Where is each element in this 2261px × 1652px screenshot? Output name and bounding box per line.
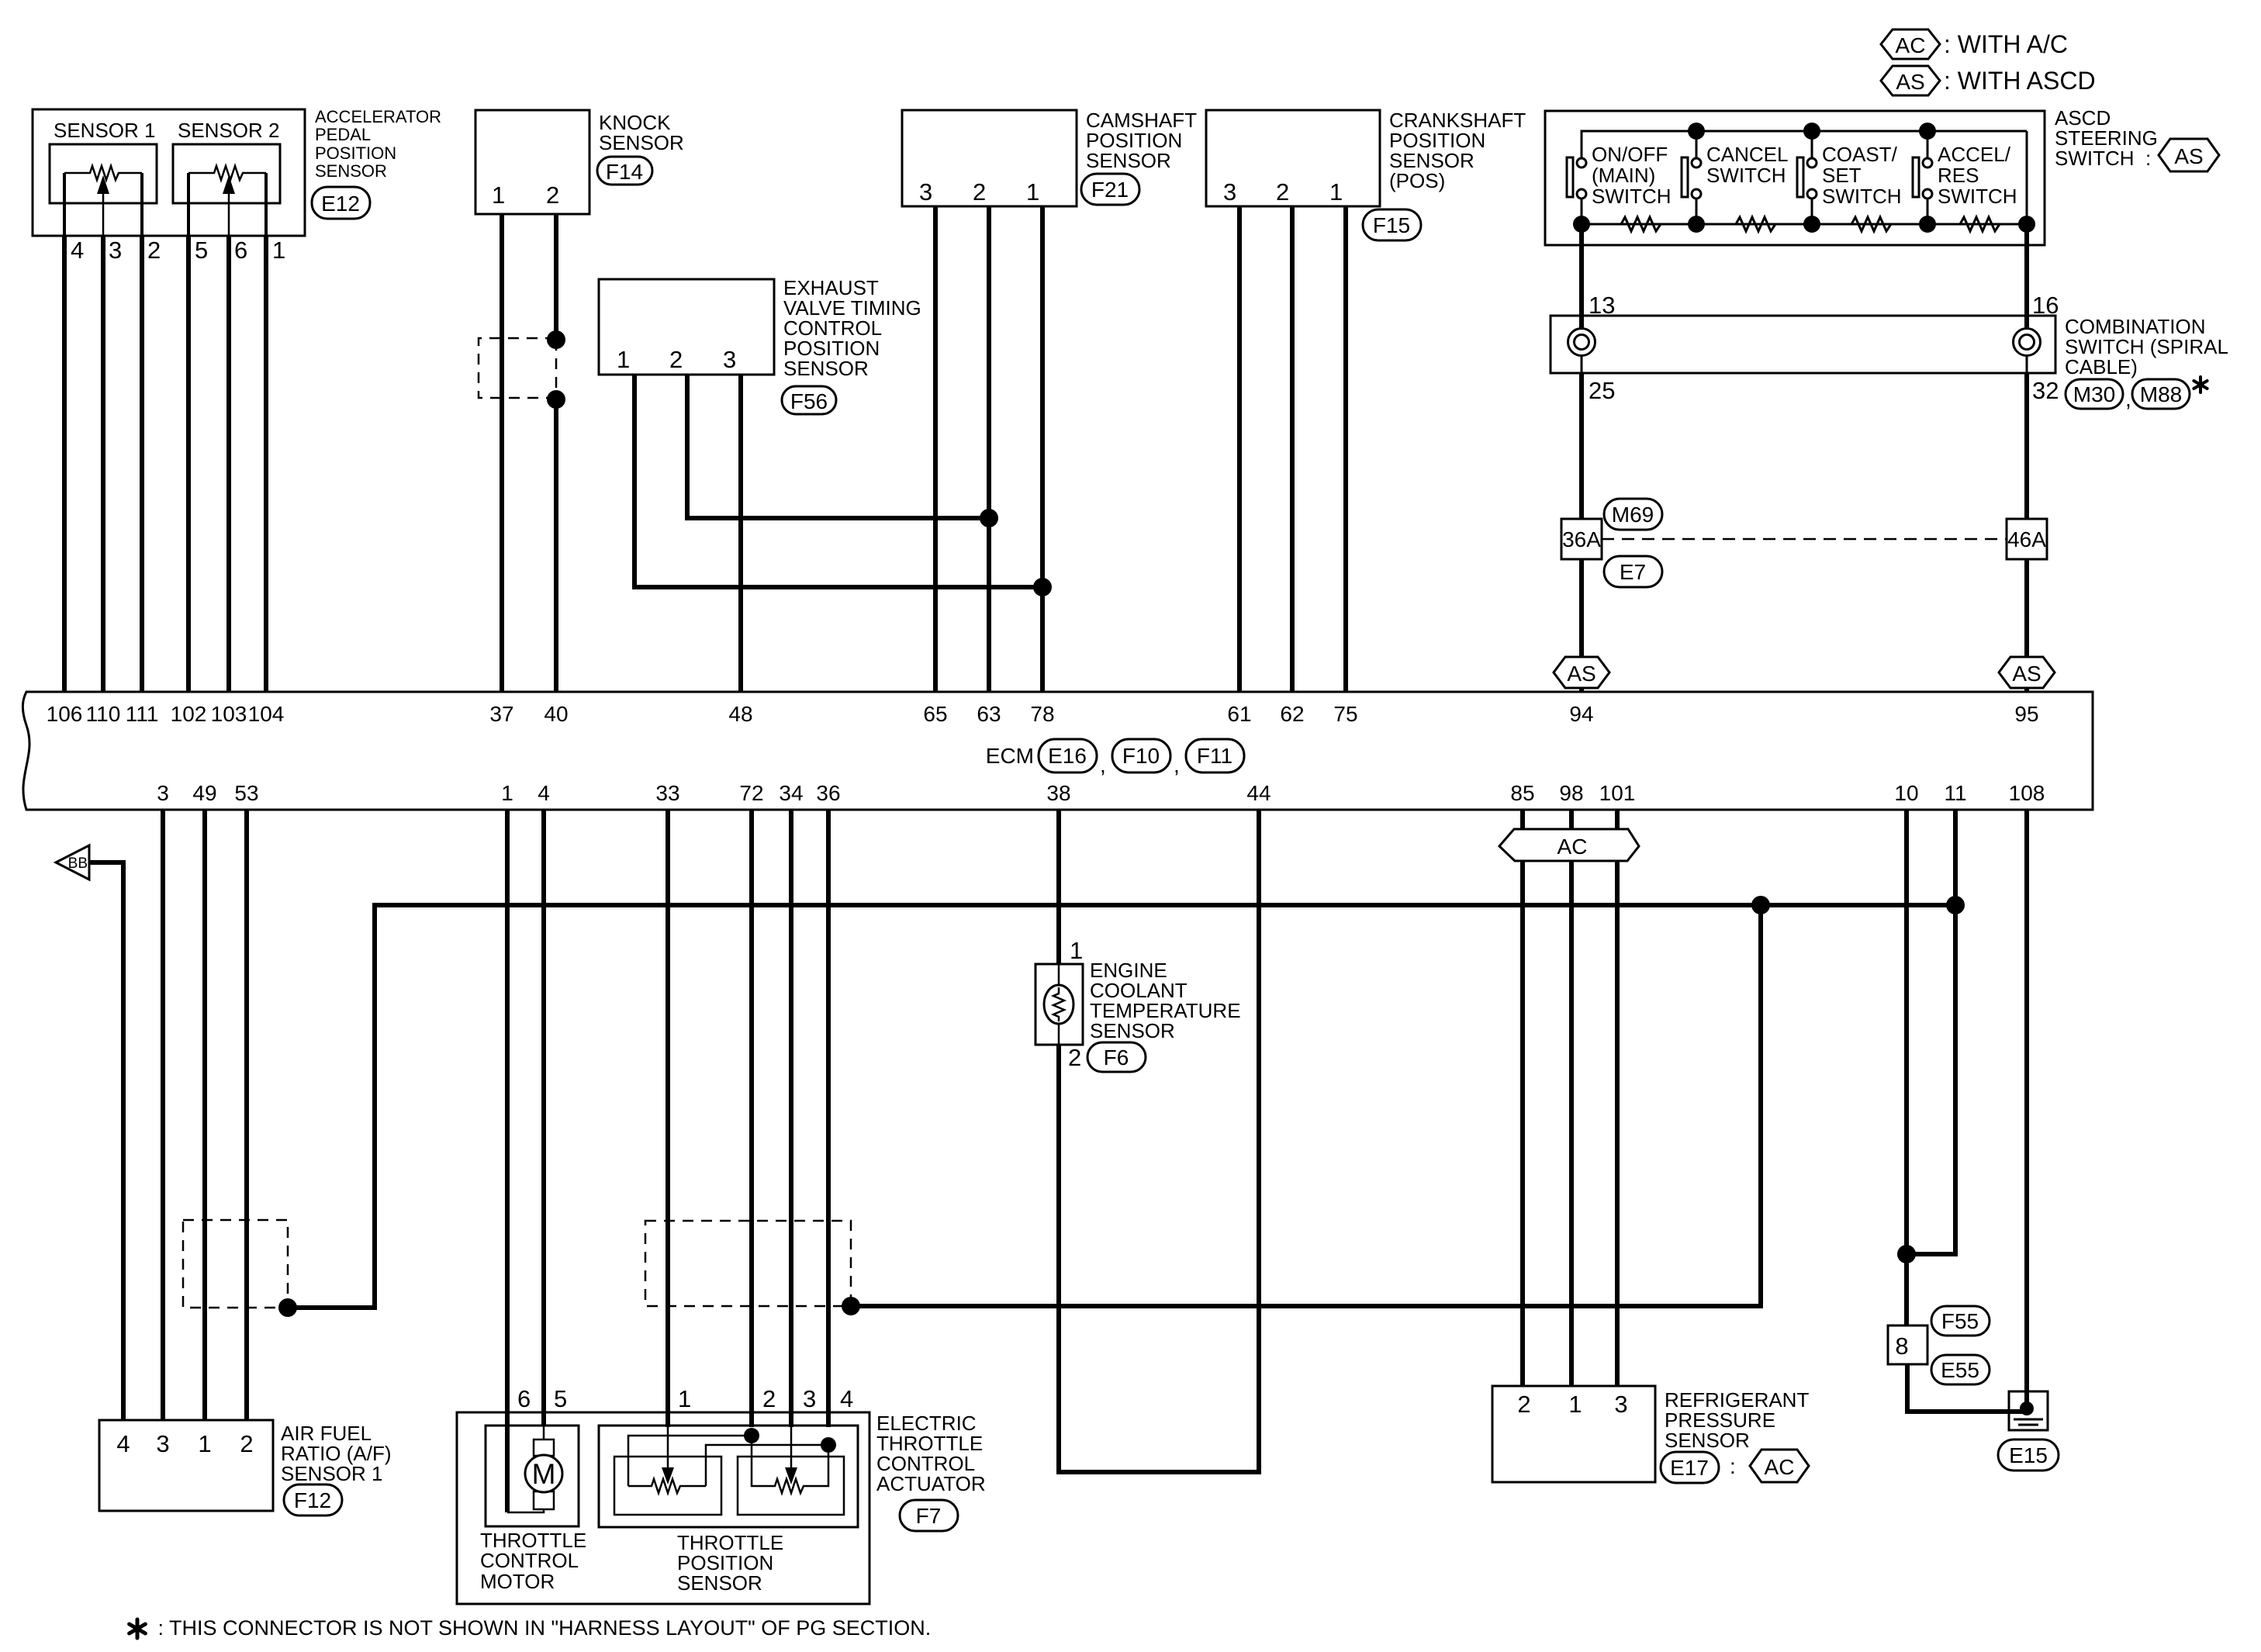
svg-text:1: 1 [272, 237, 285, 264]
junction dot wires 10/11 [1897, 1245, 1916, 1263]
wire ECM 33 to TPS pin 1 [666, 810, 670, 1427]
svg-text:COAST/: COAST/ [1822, 143, 1898, 166]
svg-text:37: 37 [489, 702, 513, 726]
svg-text:,: , [1100, 753, 1106, 777]
connector F55 [1931, 1306, 1990, 1336]
svg-text:106: 106 [47, 702, 83, 726]
dashed link 36A to 46A [1602, 538, 2007, 541]
sensor 1 inner box [50, 144, 157, 203]
svg-text:CANCEL: CANCEL [1706, 143, 1788, 166]
svg-text:1: 1 [1568, 1391, 1582, 1418]
svg-text:1: 1 [1329, 178, 1343, 206]
connector F10 [1112, 739, 1170, 772]
svg-text:AC: AC [1557, 835, 1588, 859]
svg-text:E55: E55 [1941, 1358, 1979, 1382]
svg-text:F15: F15 [1373, 213, 1410, 237]
refrigerant pressure sensor box [1492, 1386, 1655, 1482]
shield dot A/F [278, 1298, 297, 1317]
wire coolant sensor pin2 down and around to ECM 44 [1059, 810, 1259, 1472]
svg-text:38: 38 [1046, 781, 1070, 805]
svg-text:2: 2 [1517, 1391, 1530, 1418]
svg-text:25: 25 [1589, 377, 1615, 404]
svg-text:32: 32 [2032, 377, 2059, 404]
svg-text:M69: M69 [1612, 503, 1654, 527]
svg-text:AS: AS [2174, 144, 2203, 168]
wire ECM 34 to TPS pin 3 [789, 810, 793, 1427]
svg-text:48: 48 [728, 702, 752, 726]
wire ECM 11 joining wire 10 [1907, 810, 1955, 1254]
TPS pot housing left [614, 1457, 721, 1515]
wire ECM 53 to A/F pin 2 [244, 810, 249, 1420]
svg-text:: WITH A/C: : WITH A/C [1944, 30, 2068, 58]
svg-text:: THIS CONNECTOR IS NOT SHOWN: : THIS CONNECTOR IS NOT SHOWN IN "HARNES… [152, 1616, 931, 1640]
SECTION-TOP [33, 29, 2228, 692]
right pot resistor [752, 1436, 828, 1493]
shield dashed box A/F [183, 1220, 288, 1308]
svg-text:SENSOR: SENSOR [315, 161, 387, 181]
junction dot rail A / wire 11 [1946, 896, 1965, 914]
svg-text:,: , [2125, 387, 2131, 411]
svg-text:1: 1 [198, 1430, 211, 1457]
wire ECM 4 to throttle motor pin 5 [541, 810, 546, 1426]
motor internal wiring [507, 1509, 544, 1512]
connector E7 [1604, 556, 1662, 587]
wire ECM 101 to refrigerant pin 3 [1615, 810, 1620, 1386]
connector F7 [900, 1500, 958, 1531]
legend AS hexagon [1881, 66, 1940, 95]
svg-text:SWITCH: SWITCH [1592, 185, 1672, 208]
connector E55 [1931, 1355, 1990, 1384]
throttle control motor box [486, 1426, 579, 1526]
svg-text:SWITCH: SWITCH [1706, 164, 1786, 187]
ASCD steering switch box [1545, 111, 2045, 245]
svg-text:M: M [532, 1458, 556, 1490]
wire ECM 38 to coolant sensor [1056, 810, 1061, 964]
svg-text:SENSOR: SENSOR [1090, 1019, 1175, 1042]
svg-text:2: 2 [546, 181, 559, 209]
svg-text:2: 2 [762, 1385, 776, 1412]
svg-text:SENSOR: SENSOR [677, 1571, 762, 1595]
svg-text:F10: F10 [1122, 744, 1160, 768]
shield ground rail B [851, 905, 1761, 1306]
ECM top pin numbers [47, 702, 2039, 726]
accel/res switch [1913, 131, 2017, 224]
svg-text:103: 103 [211, 702, 247, 726]
svg-text:5: 5 [195, 237, 208, 264]
svg-text:SENSOR 2: SENSOR 2 [178, 119, 280, 142]
wires camshaft to ECM 65 63 78 [933, 206, 938, 692]
wire ECM 1 to throttle motor pin 6 [505, 810, 510, 1512]
spiral cable symbol right [2014, 316, 2041, 373]
svg-text:AC: AC [1896, 33, 1926, 57]
svg-text:8: 8 [1895, 1332, 1908, 1360]
svg-text:MOTOR: MOTOR [480, 1570, 555, 1593]
connector F12 [284, 1484, 342, 1515]
svg-text:2: 2 [1276, 178, 1289, 206]
wire knock pin2 to ECM 40 with shield dots [554, 214, 558, 340]
left pot wiper arrow [667, 1427, 669, 1472]
svg-text:AS: AS [1567, 662, 1595, 686]
svg-text:4: 4 [840, 1385, 853, 1412]
connector E12 [312, 187, 370, 219]
spiral cable symbol left [1568, 316, 1595, 373]
motor terminal top [534, 1439, 554, 1456]
ASCD inner bus top [1582, 131, 2027, 163]
svg-text:AS: AS [2012, 662, 2041, 686]
potentiometer sensor 2 [188, 166, 266, 236]
svg-text:2: 2 [147, 237, 161, 264]
svg-text:SWITCH :: SWITCH : [2055, 147, 2151, 170]
wire ECM 36 to TPS pin 4 [826, 810, 831, 1427]
connector E16 [1039, 739, 1097, 772]
svg-text:ACCEL/: ACCEL/ [1938, 143, 2011, 166]
svg-text:: WITH ASCD: : WITH ASCD [1944, 67, 2096, 95]
TPS link line 2 (pin4 to left pot) [706, 1445, 828, 1486]
AS hexagon at ASCD label [2159, 139, 2219, 171]
wire ECM 108 to ground [2024, 810, 2029, 1405]
svg-text:2: 2 [240, 1430, 253, 1457]
svg-text:ON/OFF: ON/OFF [1592, 143, 1668, 166]
svg-text:F21: F21 [1091, 178, 1129, 202]
svg-text:M30: M30 [2073, 382, 2115, 406]
junction dot rail A / riser [1751, 896, 1770, 914]
svg-text:2: 2 [1068, 1044, 1081, 1071]
svg-text:4: 4 [116, 1430, 130, 1457]
svg-text:F11: F11 [1197, 744, 1232, 768]
svg-text:78: 78 [1030, 702, 1054, 726]
shield junction dots knock [547, 330, 565, 349]
svg-text:ACCELERATOR: ACCELERATOR [315, 107, 441, 126]
svg-text:3: 3 [109, 237, 122, 264]
svg-text:110: 110 [86, 702, 121, 726]
svg-text:5: 5 [554, 1385, 567, 1412]
svg-text:49: 49 [192, 781, 216, 805]
svg-text:ACTUATOR: ACTUATOR [876, 1472, 986, 1495]
svg-text:E15: E15 [2009, 1443, 2048, 1467]
svg-text:4: 4 [538, 781, 550, 805]
svg-text:3: 3 [1614, 1391, 1627, 1418]
connector M88 [2132, 379, 2190, 409]
connector F14 [597, 157, 652, 185]
svg-text:SENSOR: SENSOR [599, 131, 684, 154]
svg-text:1: 1 [617, 346, 630, 373]
connector F15 [1363, 209, 1421, 240]
svg-text:F56: F56 [790, 389, 828, 413]
TPS link line 1 (pin2 to left pot) [628, 1436, 752, 1486]
AC flag on wires 85 98 101 [1499, 829, 1639, 861]
svg-text:F7: F7 [916, 1504, 942, 1528]
svg-text:SET: SET [1822, 164, 1862, 187]
svg-text::: : [1730, 1454, 1736, 1478]
connector F6 [1087, 1042, 1146, 1072]
wire ASCD right output to combination switch pin 16 [2024, 224, 2029, 316]
junction dot TPS pin4 [821, 1437, 836, 1453]
svg-text:94: 94 [1569, 702, 1593, 726]
svg-text:3: 3 [803, 1385, 816, 1412]
svg-text:101: 101 [1599, 781, 1636, 805]
svg-text:104: 104 [248, 702, 285, 726]
svg-text:10: 10 [1894, 781, 1918, 805]
connector F56 [782, 386, 836, 414]
svg-text:CONTROL: CONTROL [480, 1549, 579, 1572]
wire F56 pin3 to ECM 48 [738, 375, 743, 692]
svg-text:SWITCH: SWITCH [1938, 185, 2017, 208]
svg-text:33: 33 [655, 781, 679, 805]
air fuel ratio sensor F12 box [99, 1420, 273, 1511]
wire 46A to AS hexagon to ECM 95 [2024, 559, 2029, 692]
connector F21 [1081, 174, 1139, 205]
camshaft position sensor F21 box [902, 110, 1077, 206]
wire pin 32 to 46A [2024, 373, 2029, 519]
svg-text:65: 65 [923, 702, 947, 726]
exhaust valve timing control position sensor F56 box [599, 279, 774, 375]
cancel switch [1682, 131, 1788, 224]
wire ECM 85 to refrigerant pin 2 [1520, 810, 1525, 1386]
svg-text:POSITION: POSITION [315, 143, 396, 163]
AS hexagon on wire 94 [1554, 657, 1609, 688]
svg-text:RES: RES [1938, 164, 1979, 187]
connector E17 [1661, 1452, 1719, 1483]
svg-text:M88: M88 [2140, 382, 2182, 406]
potentiometer sensor 1 [64, 166, 142, 236]
svg-text:SENSOR 1: SENSOR 1 [54, 119, 156, 142]
svg-text:72: 72 [739, 781, 763, 805]
wire F56 pin1 to junction on camshaft pin1 wire [634, 375, 1042, 587]
connector F11 [1186, 739, 1244, 772]
left pot resistor [628, 1479, 706, 1493]
svg-text:75: 75 [1333, 702, 1357, 726]
resistor 4 on bus [1936, 217, 2018, 231]
wire ECM 98 to refrigerant pin 1 [1569, 810, 1574, 1386]
svg-text:PEDAL: PEDAL [315, 125, 371, 144]
svg-text:1: 1 [492, 181, 505, 209]
svg-text:34: 34 [779, 781, 803, 805]
wire pin 25 to 36A [1579, 373, 1584, 519]
svg-text:1: 1 [501, 781, 513, 805]
wire ECM 49 to A/F pin 1 [202, 810, 207, 1420]
svg-text:F55: F55 [1941, 1309, 1979, 1333]
svg-text:SENSOR 1: SENSOR 1 [281, 1462, 383, 1485]
svg-text:111: 111 [126, 702, 159, 726]
SECTION-ECM [22, 692, 2093, 810]
TPS pot housing right [738, 1457, 844, 1515]
svg-text:63: 63 [977, 702, 1001, 726]
ASCD inner bus bottom with right edge [1582, 131, 2027, 224]
svg-text:36A: 36A [1562, 527, 1601, 551]
wires crankshaft to ECM 61 62 75 [1237, 206, 1242, 692]
svg-text:3: 3 [1223, 178, 1236, 206]
shield dashed box knock [479, 338, 556, 398]
motor terminal bottom [534, 1491, 554, 1509]
connector M30 [2066, 379, 2123, 409]
svg-text:95: 95 [2014, 702, 2038, 726]
connector 8 box F55/E55 [1888, 1325, 1927, 1364]
connector M69 [1604, 499, 1662, 530]
svg-text:6: 6 [517, 1385, 531, 1412]
svg-text:6: 6 [234, 237, 247, 264]
wire ECM 3 to A/F pin 3 [161, 810, 165, 1420]
svg-text:85: 85 [1510, 781, 1534, 805]
svg-text:SWITCH: SWITCH [1822, 185, 1902, 208]
resistor 2 on bus [1705, 217, 1803, 231]
wire ECM 72 to TPS pin 2 [749, 810, 754, 1427]
svg-text:40: 40 [544, 702, 568, 726]
connector 46A box [2007, 519, 2047, 559]
wire ASCD left output to combination switch pin 13 [1579, 224, 1584, 316]
bus dots bottom [1573, 216, 1590, 233]
throttle position sensor box [599, 1426, 858, 1527]
svg-text:AS: AS [1896, 70, 1924, 94]
svg-text:108: 108 [2009, 781, 2045, 805]
svg-text:F6: F6 [1104, 1045, 1129, 1070]
footnote [130, 1619, 146, 1638]
svg-text:SENSOR: SENSOR [783, 357, 869, 380]
svg-text:,: , [1174, 753, 1180, 777]
svg-text:61: 61 [1227, 702, 1251, 726]
svg-text:3: 3 [919, 178, 932, 206]
resistor 1 on bus [1590, 217, 1688, 231]
connector E15 [1998, 1439, 2059, 1471]
svg-text:11: 11 [1944, 781, 1966, 805]
svg-text:1: 1 [1070, 937, 1083, 964]
shield ground rail A [288, 905, 1955, 1308]
svg-text:E17: E17 [1670, 1456, 1709, 1480]
wire knock pin1 to ECM 37 [500, 214, 504, 692]
ECM bottom pin numbers [157, 781, 2045, 805]
svg-text:1: 1 [678, 1385, 691, 1412]
svg-text:F12: F12 [294, 1488, 331, 1512]
svg-text:62: 62 [1280, 702, 1304, 726]
coast/set switch [1797, 131, 1902, 224]
svg-text:BB: BB [68, 855, 88, 872]
crankshaft position sensor F15 box [1206, 110, 1380, 206]
wire ECM 10 to connector 8 [1904, 810, 1909, 1325]
svg-text:53: 53 [234, 781, 258, 805]
electric throttle control actuator F7 outer box [457, 1412, 869, 1604]
svg-text:2: 2 [973, 178, 986, 206]
svg-text:1: 1 [1026, 178, 1039, 206]
junction dot F56 pin1 / camshaft pin1 [1033, 578, 1052, 596]
engine coolant temperature sensor F6 [1035, 964, 1083, 1045]
right pot wiper arrow [790, 1427, 793, 1472]
AS hexagon on wire 95 [1999, 657, 2055, 688]
legend AC hexagon [1881, 29, 1940, 59]
on/off main switch [1567, 143, 1672, 224]
svg-text:46A: 46A [2007, 527, 2046, 551]
wires E12 to ECM pins 106 110 111 102 103 104 [62, 236, 67, 692]
accelerator pedal position sensor E12 box [33, 109, 305, 236]
svg-text:ECM: ECM [986, 744, 1034, 768]
svg-text:F14: F14 [606, 160, 643, 184]
svg-text:3: 3 [156, 1430, 169, 1457]
svg-text:44: 44 [1246, 781, 1271, 805]
svg-text:(MAIN): (MAIN) [1592, 164, 1655, 187]
junction dot TPS pin2 [744, 1428, 759, 1443]
svg-text:102: 102 [171, 702, 207, 726]
svg-text:3: 3 [157, 781, 169, 805]
svg-text:36: 36 [816, 781, 840, 805]
svg-text:E7: E7 [1620, 560, 1646, 584]
connector 36A box [1561, 519, 1602, 559]
AC hexagon at E17 [1750, 1450, 1809, 1482]
shield dot throttle [842, 1297, 860, 1315]
bus dots top [1688, 123, 1705, 140]
svg-text:4: 4 [71, 237, 84, 264]
BB off-page arrow [56, 845, 89, 880]
svg-text:AC: AC [1765, 1455, 1795, 1479]
knock sensor F14 box [475, 110, 589, 214]
svg-text:98: 98 [1559, 781, 1583, 805]
shield dashed box throttle [645, 1221, 851, 1306]
svg-text:SENSOR: SENSOR [1086, 149, 1171, 172]
motor M [525, 1455, 562, 1492]
ground E15 [2009, 1391, 2048, 1430]
SECTION-BOTTOM [56, 810, 2059, 1640]
wire F56 pin2 to junction on camshaft pin2 wire [687, 375, 989, 518]
svg-text:(POS): (POS) [1389, 169, 1445, 192]
resistor 3 on bus [1820, 217, 1919, 231]
wire BB to air fuel ratio sensor pin 4 [89, 862, 123, 1420]
svg-text:3: 3 [723, 346, 736, 373]
junction dot F56 pin2 / camshaft pin2 [980, 509, 998, 527]
wire connector 8 to ground [1907, 1364, 2025, 1412]
svg-text:CABLE): CABLE) [2065, 355, 2138, 378]
svg-text:2: 2 [669, 346, 683, 373]
combination switch (spiral cable) box [1551, 316, 2055, 373]
sensor 2 inner box [173, 144, 280, 203]
svg-text:E16: E16 [1048, 744, 1087, 768]
svg-text:E12: E12 [321, 192, 360, 216]
ECM box with torn left edge [22, 692, 2093, 810]
wire 36A to AS hexagon to ECM 94 [1579, 559, 1584, 692]
svg-text:SENSOR: SENSOR [1665, 1429, 1750, 1452]
